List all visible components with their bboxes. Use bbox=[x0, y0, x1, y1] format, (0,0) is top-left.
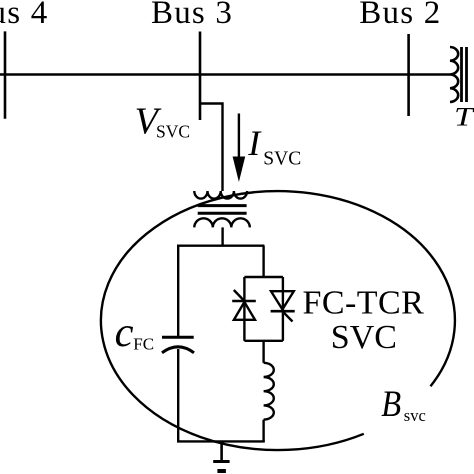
wire inductor to bottom bbox=[262, 420, 264, 442]
transformer T winding (right edge) bbox=[450, 47, 458, 102]
svg-text:FC: FC bbox=[133, 334, 154, 353]
SVC transformer primary winding bbox=[194, 191, 247, 199]
thyristor pair right branch wire bbox=[282, 277, 284, 341]
wire step from Bus 3 to SVC branch bbox=[200, 104, 223, 192]
ground stub bbox=[220, 441, 223, 460]
SVC transformer core bar 1 bbox=[198, 204, 247, 207]
capacitor branch upper wire bbox=[177, 246, 179, 337]
svg-text:svc: svc bbox=[404, 406, 426, 425]
capacitor C_FC curved plate bbox=[162, 347, 194, 353]
thyristor 1 gate bbox=[234, 290, 245, 301]
SVC network bottom wire bbox=[177, 440, 265, 442]
ground bar 2 bbox=[217, 469, 226, 473]
wire thyristor pair to inductor bbox=[262, 341, 264, 363]
svg-text:B: B bbox=[381, 383, 401, 424]
wire transformer secondary to SVC network bbox=[221, 227, 223, 246]
Bus 4 tick bbox=[4, 31, 7, 118]
thyristor 2 cathode bar bbox=[271, 310, 295, 313]
SVC transformer secondary winding bbox=[194, 218, 250, 227]
thyristor pair loop bottom wire bbox=[244, 340, 283, 342]
thyristor 2 triangle (pointing down) bbox=[271, 291, 294, 309]
bus bar horizontal line bbox=[0, 73, 450, 76]
svg-text:c: c bbox=[115, 309, 134, 356]
svg-text:T: T bbox=[454, 102, 474, 131]
svg-text:SVC: SVC bbox=[156, 122, 190, 142]
SVC ellipse boundary (with gap at B_svc) bbox=[101, 191, 455, 450]
TCR inductor bbox=[264, 363, 274, 420]
svg-text:I: I bbox=[247, 123, 262, 163]
transformer T core bar 1 bbox=[460, 47, 463, 102]
svg-text:SVC: SVC bbox=[263, 148, 301, 169]
SVC transformer core bar 2 bbox=[198, 212, 247, 215]
current arrow I_SVC shaft bbox=[238, 114, 240, 164]
svg-text:Bus 2: Bus 2 bbox=[359, 0, 441, 31]
thyristor pair left branch wire bbox=[243, 277, 245, 341]
thyristor 2 gate bbox=[282, 311, 292, 321]
thyristor pair loop top wire bbox=[244, 276, 283, 278]
capacitor C_FC top plate bbox=[162, 336, 194, 339]
current arrow I_SVC head bbox=[233, 157, 246, 183]
transformer T core bar 2 bbox=[465, 47, 468, 102]
Bus 3 tick bbox=[199, 32, 202, 121]
SVC network top wire bbox=[177, 244, 264, 246]
thyristor 1 cathode bar bbox=[232, 300, 256, 303]
thyristor 1 triangle (pointing up) bbox=[234, 302, 255, 320]
ground bar 1 bbox=[213, 460, 229, 463]
Bus 2 tick bbox=[407, 34, 410, 116]
svg-text:SVC: SVC bbox=[331, 319, 397, 356]
svg-text:Bus 3: Bus 3 bbox=[151, 0, 233, 31]
capacitor branch lower wire bbox=[177, 349, 179, 441]
svg-text:FC-TCR: FC-TCR bbox=[303, 284, 425, 321]
svg-text:Bus 4: Bus 4 bbox=[0, 0, 48, 31]
TCR branch upper wire bbox=[262, 246, 264, 277]
